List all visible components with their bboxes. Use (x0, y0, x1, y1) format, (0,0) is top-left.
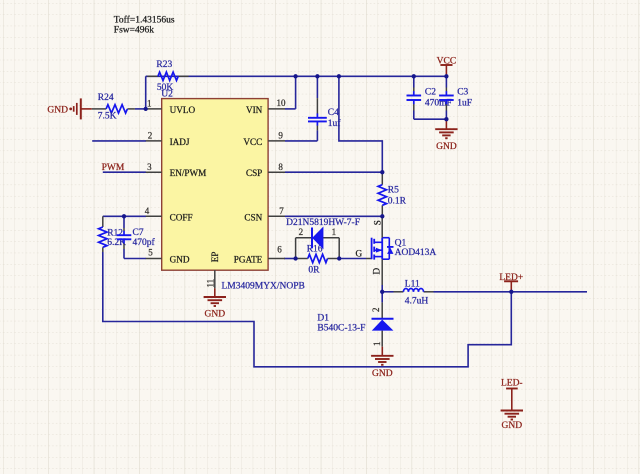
pin name VIN (246, 105, 263, 115)
svg-text:3: 3 (147, 162, 152, 172)
wire R12 C7 top to pin4 (103, 215, 146, 217)
label LED+ (499, 273, 523, 283)
pin 4 lead (146, 215, 162, 217)
pin number 3 (147, 162, 152, 172)
power port LED- (506, 389, 518, 411)
label 4.7uH (405, 297, 429, 307)
svg-text:11: 11 (206, 279, 216, 288)
label 470mF (425, 99, 452, 109)
capacitor C2 (407, 76, 422, 110)
svg-text:CSN: CSN (244, 212, 262, 222)
label GND left (47, 105, 68, 115)
svg-text:C2: C2 (425, 87, 436, 97)
diode D2 (312, 228, 323, 249)
svg-text:PWM: PWM (102, 163, 125, 173)
power port GND left (69, 98, 91, 119)
pin label S (372, 220, 382, 225)
pin 3 lead (146, 171, 162, 173)
note Toff (114, 15, 175, 26)
label R23 (156, 60, 172, 70)
svg-text:6: 6 (277, 244, 282, 254)
power port VCC (440, 65, 452, 76)
ground at EP (204, 288, 226, 306)
svg-text:4.7uH: 4.7uH (405, 297, 429, 307)
label D1 (317, 313, 329, 323)
svg-text:EP: EP (210, 252, 220, 263)
junction dot 3 (315, 74, 319, 78)
net label PWM (102, 163, 125, 173)
junction dot 6 (444, 74, 448, 78)
pin name VCC (243, 137, 262, 147)
svg-text:Fsw=496k: Fsw=496k (114, 26, 154, 36)
svg-text:1: 1 (147, 99, 152, 109)
junction dot 11 (293, 256, 297, 260)
junction dot 4 (337, 74, 341, 78)
pin name CSN (244, 212, 262, 222)
wire EN/PWM pin3 (103, 171, 146, 173)
pin 9 lead (268, 140, 285, 142)
svg-text:D1: D1 (317, 313, 329, 323)
pin number 2 of D2 (299, 227, 304, 237)
junction dot 5 (412, 74, 416, 78)
svg-text:C4: C4 (328, 108, 339, 118)
pin number 4 (145, 206, 150, 216)
label 6.2K (107, 238, 126, 248)
pin number 2 of D1 (371, 308, 381, 313)
svg-text:R12: R12 (107, 229, 123, 239)
svg-text:UVLO: UVLO (170, 105, 196, 115)
wire GND to pin1 row (135, 108, 146, 110)
pin number 11 (206, 279, 216, 288)
power port LED+ (504, 281, 518, 292)
label C2 (425, 87, 436, 97)
label R24 (98, 93, 114, 103)
wire CSN pin7 (285, 215, 382, 217)
ground at LED- (501, 411, 523, 420)
svg-text:VCC: VCC (243, 137, 262, 147)
capacitor C4 (308, 98, 327, 130)
pin name EP (210, 252, 220, 263)
capacitor C3 (439, 76, 454, 110)
junction dot 1 (144, 107, 148, 111)
wire Q1 drain to node (381, 285, 383, 292)
svg-text:VIN: VIN (246, 105, 263, 115)
pin number 2 (148, 131, 153, 141)
op-amp U2 LM3409 body (162, 99, 268, 271)
pin number 1 of D1 (372, 342, 382, 347)
svg-text:1uf: 1uf (328, 118, 342, 129)
label GND at C3 (436, 142, 457, 152)
ground at C3 (435, 119, 457, 138)
pin name CSP (246, 168, 262, 178)
svg-text:D: D (372, 268, 382, 275)
pin 6 lead (268, 258, 285, 260)
svg-text:4: 4 (145, 206, 150, 216)
ground at D1 (371, 347, 393, 365)
note Fsw (114, 26, 154, 36)
svg-text:2: 2 (148, 131, 153, 141)
svg-text:C3: C3 (457, 87, 468, 97)
svg-text:9: 9 (278, 131, 283, 141)
pin 2 lead (146, 140, 162, 142)
svg-text:Toff=1.43156us: Toff=1.43156us (114, 15, 175, 26)
wire VIN riser (285, 76, 296, 109)
resistor R12 (99, 216, 107, 252)
svg-text:470pf: 470pf (133, 237, 156, 248)
label 1uF (457, 99, 472, 109)
pin number 7 (279, 206, 284, 216)
pin number 5 (148, 248, 153, 258)
label 7.5K (98, 112, 117, 122)
pin label G (355, 248, 362, 258)
pin 5 lead (146, 258, 162, 260)
label R16 (307, 245, 323, 255)
svg-text:7: 7 (279, 206, 284, 216)
svg-text:CSP: CSP (246, 168, 262, 178)
wire node to L11 (382, 291, 393, 293)
transistor Q1 (366, 216, 394, 285)
svg-text:C7: C7 (133, 228, 144, 238)
label 1uf (328, 118, 342, 129)
wire output return loop (103, 252, 512, 367)
svg-text:L11: L11 (405, 279, 420, 289)
junction dot 9 (380, 170, 384, 174)
wire C2 bottom to C3 (414, 111, 447, 120)
wire IADJ pin2 (92, 140, 146, 142)
pin name PGATE (234, 255, 263, 265)
svg-text:D21N5819HW-7-F: D21N5819HW-7-F (286, 218, 360, 228)
svg-text:1: 1 (372, 342, 382, 347)
wire LED+ node to right end (511, 291, 587, 293)
svg-text:LED+: LED+ (499, 273, 523, 283)
svg-text:VCC: VCC (437, 56, 457, 66)
svg-text:R24: R24 (98, 93, 114, 103)
pin name COFF (170, 212, 193, 222)
svg-text:GND: GND (372, 369, 393, 379)
pin 8 lead (268, 171, 285, 173)
pin 1 lead (146, 108, 162, 110)
label C3 (457, 87, 468, 97)
svg-text:R5: R5 (388, 186, 399, 196)
pin number 10 (277, 98, 287, 108)
label GND at LED- (502, 421, 523, 431)
junction dot 12 (337, 256, 341, 260)
label C4 (328, 108, 339, 118)
junction dot 13 (380, 290, 384, 294)
wire gate network to Q1 gate (339, 258, 366, 260)
pin name GND (170, 255, 190, 265)
svg-text:1uF: 1uF (457, 99, 472, 109)
junction dot 10 (380, 214, 384, 218)
pin 7 lead (268, 215, 285, 217)
label R12 (107, 229, 123, 239)
svg-text:0R: 0R (308, 266, 320, 276)
wire rail drop to CSP (339, 76, 382, 172)
wire L11 to LED+ node (434, 291, 512, 293)
svg-text:2: 2 (299, 227, 304, 237)
diode D1 (372, 302, 394, 346)
resistor R16 (296, 254, 340, 262)
label D2 1N5819HW-7-F (286, 218, 360, 228)
label VCC (437, 56, 457, 66)
wire node to D1 (381, 292, 383, 303)
pin 10 lead (268, 108, 285, 110)
label R5 (388, 186, 399, 196)
pin name IADJ (170, 137, 190, 147)
designator U2 (161, 89, 173, 99)
label GND at D1 (372, 369, 393, 379)
svg-text:LM3409MYX/NOPB: LM3409MYX/NOPB (222, 282, 305, 292)
pin number 8 (278, 162, 283, 172)
svg-text:0.1R: 0.1R (388, 197, 407, 207)
svg-text:1: 1 (332, 227, 337, 237)
svg-text:7.5K: 7.5K (98, 112, 117, 122)
pin name EN/PWM (170, 168, 207, 178)
svg-text:PGATE: PGATE (234, 255, 263, 265)
pin name UVLO (170, 105, 196, 115)
label GND at EP (205, 310, 226, 320)
label 0.1R (388, 197, 407, 207)
pin EP lead (214, 270, 216, 288)
svg-text:R23: R23 (156, 60, 172, 70)
pin label D (372, 268, 382, 275)
pin number 6 (277, 244, 282, 254)
resistor R5 (378, 172, 386, 216)
svg-text:8: 8 (278, 162, 283, 172)
pin number 1 of D2 (332, 227, 337, 237)
svg-text:IADJ: IADJ (170, 137, 190, 147)
wire PGATE to gate network (284, 258, 296, 260)
svg-text:B540C-13-F: B540C-13-F (317, 324, 365, 334)
pin number 9 (278, 131, 283, 141)
svg-text:GND: GND (502, 421, 523, 431)
label 470pf (133, 237, 156, 248)
svg-text:10: 10 (277, 98, 287, 108)
svg-text:GND: GND (47, 105, 68, 115)
label 0R (308, 266, 320, 276)
label AOD413A (395, 248, 437, 258)
wire CSP pin8 (285, 171, 382, 173)
svg-text:50K: 50K (157, 83, 174, 93)
label L11 (405, 279, 420, 289)
wire C7 top stub (123, 216, 125, 228)
svg-text:Q1: Q1 (395, 238, 407, 248)
wire pin1 riser (145, 76, 147, 109)
svg-text:5: 5 (148, 248, 153, 258)
svg-text:2: 2 (371, 308, 381, 313)
inductor L11 (394, 289, 434, 292)
junction dot 8 (122, 214, 126, 218)
wire top rail (146, 75, 447, 77)
label C7 (133, 228, 144, 238)
value LM3409MYX/NOPB (222, 282, 305, 292)
label 50K (157, 83, 174, 93)
svg-text:AOD413A: AOD413A (395, 248, 437, 258)
resistor R23 (147, 72, 188, 80)
wire C7 bottom to pin5 (124, 249, 146, 259)
svg-text:GND: GND (205, 310, 226, 320)
wire C4 top (316, 76, 318, 98)
label B540C-13-F (317, 324, 365, 334)
junction dot 14 (509, 290, 513, 294)
junction dot 2 (293, 74, 297, 78)
label Q1 (395, 238, 407, 248)
diode D2 leads (296, 238, 340, 259)
resistor R24 (92, 105, 135, 113)
wire VCC pin9 to C4 bottom (285, 130, 317, 141)
junction dot 7 (444, 117, 448, 121)
pin number 1 (147, 99, 152, 109)
label LED- (501, 379, 523, 389)
capacitor C7 (117, 228, 132, 249)
svg-text:GND: GND (436, 142, 457, 152)
svg-text:GND: GND (170, 255, 190, 265)
svg-text:EN/PWM: EN/PWM (170, 168, 207, 178)
svg-text:LED-: LED- (501, 379, 523, 389)
svg-text:COFF: COFF (170, 212, 193, 222)
svg-text:G: G (355, 248, 362, 258)
svg-text:S: S (372, 220, 382, 225)
